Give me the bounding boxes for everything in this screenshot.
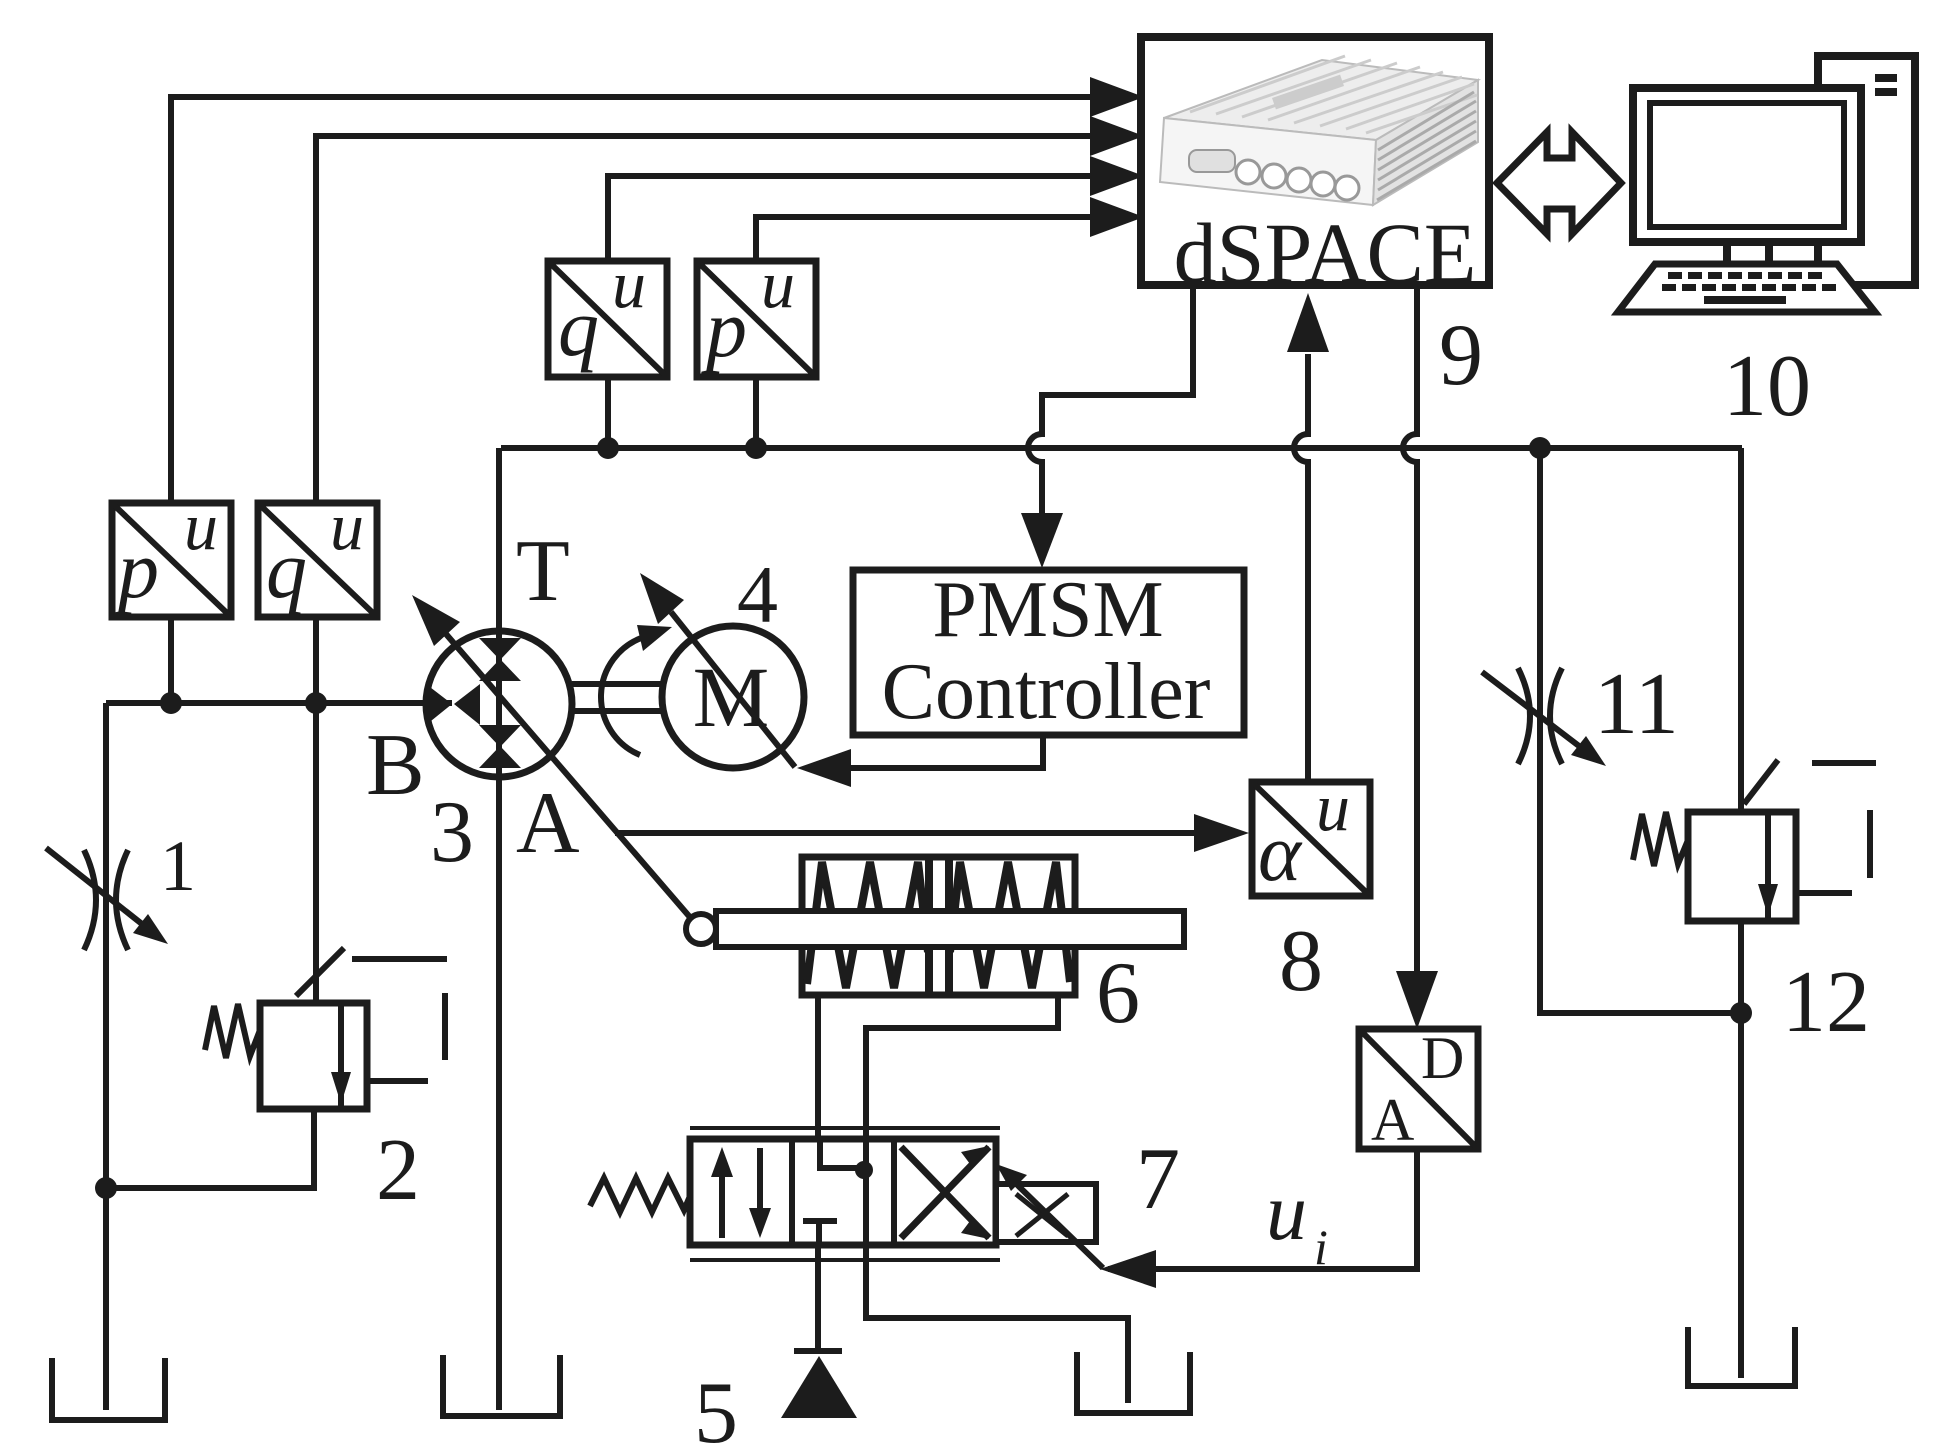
svg-text:A: A [516,775,580,872]
svg-text:B: B [366,717,425,814]
svg-text:u: u [330,488,364,564]
svg-text:i: i [1314,1219,1328,1275]
svg-text:5: 5 [694,1365,738,1450]
svg-text:1: 1 [160,826,196,906]
svg-text:q: q [558,282,599,373]
svg-text:12: 12 [1782,954,1870,1051]
svg-text:7: 7 [1136,1131,1180,1228]
svg-text:4: 4 [737,549,778,640]
svg-text:u: u [1266,1166,1307,1257]
svg-text:Controller: Controller [882,648,1211,736]
svg-text:8: 8 [1279,913,1323,1010]
svg-text:11: 11 [1594,656,1679,753]
svg-text:u: u [184,488,218,564]
svg-text:u: u [1316,769,1350,845]
svg-text:PMSM: PMSM [932,566,1163,654]
svg-text:6: 6 [1096,945,1140,1042]
svg-text:α: α [1258,807,1303,898]
svg-text:10: 10 [1723,338,1811,435]
svg-text:u: u [761,246,795,322]
svg-text:A: A [1371,1087,1414,1153]
svg-text:p: p [113,524,159,615]
svg-text:q: q [266,524,307,615]
svg-text:p: p [701,283,747,374]
svg-text:D: D [1421,1025,1464,1091]
svg-text:M: M [693,649,769,745]
svg-text:dSPACE: dSPACE [1174,205,1477,301]
svg-text:2: 2 [376,1122,420,1219]
svg-text:3: 3 [430,784,474,881]
svg-text:T: T [516,523,570,620]
svg-text:9: 9 [1439,307,1483,404]
svg-text:u: u [612,246,646,322]
